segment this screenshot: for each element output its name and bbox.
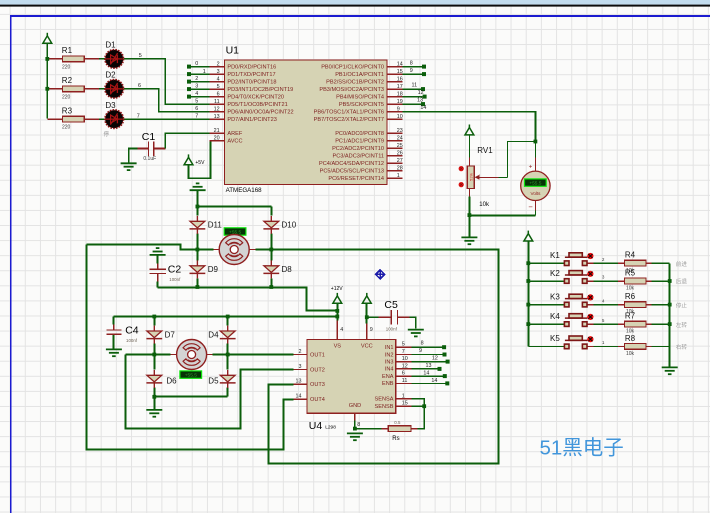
wire OUT4 loop xyxy=(86,244,293,449)
junction VCC-C5 xyxy=(365,315,369,319)
svg-text:14: 14 xyxy=(431,378,437,384)
svg-text:20: 20 xyxy=(214,135,220,141)
svg-text:25: 25 xyxy=(397,143,403,149)
potentiometer RV1 xyxy=(467,166,474,188)
wire OUT2 loop xyxy=(126,355,294,429)
resistor Rs xyxy=(388,426,411,432)
junction RV1 bottom xyxy=(468,213,472,217)
svg-text:2: 2 xyxy=(217,61,220,67)
svg-text:14: 14 xyxy=(397,61,403,67)
svg-text:IN1: IN1 xyxy=(385,345,394,351)
junction bus R1 xyxy=(45,57,49,61)
svg-text:10k: 10k xyxy=(626,351,635,357)
diode D11 xyxy=(190,216,206,234)
wire D8 column xyxy=(270,250,272,288)
wire ground stem below AVCC xyxy=(197,190,199,206)
switch K4 xyxy=(564,314,593,327)
wire K2 row xyxy=(528,280,669,282)
diode D4 xyxy=(220,326,236,344)
svg-text:14: 14 xyxy=(420,105,426,111)
svg-text:PD4/T0/XCK/PCINT20: PD4/T0/XCK/PCINT20 xyxy=(227,94,284,100)
svg-text:8: 8 xyxy=(410,60,413,66)
svg-text:100nf: 100nf xyxy=(169,277,181,282)
svg-text:28: 28 xyxy=(397,166,403,172)
wire PB4 terminal xyxy=(402,96,422,98)
wire left +5V bus vertical xyxy=(46,43,48,119)
switch K2 xyxy=(564,271,593,284)
svg-text:23: 23 xyxy=(397,128,403,134)
svg-text:PB1/OC1A/PCINT1: PB1/OC1A/PCINT1 xyxy=(335,72,384,78)
LED D2 xyxy=(105,80,123,98)
ground right of C5 xyxy=(408,330,424,337)
svg-text:D6: D6 xyxy=(166,376,177,385)
svg-text:D1: D1 xyxy=(105,41,116,50)
svg-text:220: 220 xyxy=(62,125,71,131)
svg-text:OUT1: OUT1 xyxy=(310,352,325,358)
terminal PB5 xyxy=(421,102,425,106)
svg-text:Rs: Rs xyxy=(392,436,399,442)
svg-text:D2: D2 xyxy=(105,71,116,80)
wire C1 to ground xyxy=(137,147,148,149)
junction R bus 4 xyxy=(668,322,672,326)
wire PD4 terminal xyxy=(189,96,210,98)
wire ENB terminal xyxy=(411,382,445,384)
wire PD3 terminal xyxy=(189,88,210,90)
svg-text:3: 3 xyxy=(217,69,220,75)
svg-text:13: 13 xyxy=(417,98,423,104)
terminal PD3 xyxy=(187,87,191,91)
U1 left pin labels xyxy=(227,64,293,144)
U4 pin numbers xyxy=(296,327,408,428)
svg-text:6: 6 xyxy=(138,83,141,89)
wire K5 row xyxy=(528,345,669,347)
capacitor C5 xyxy=(391,310,397,325)
power above K bus xyxy=(524,231,533,241)
svg-text:IN4: IN4 xyxy=(385,367,394,373)
svg-text:R4: R4 xyxy=(625,250,636,259)
resistor R6 xyxy=(624,302,646,308)
svg-text:左转: 左转 xyxy=(676,321,688,329)
wire K bus left xyxy=(527,241,529,346)
junction K bus 4 xyxy=(526,322,530,326)
svg-text:13: 13 xyxy=(296,378,302,384)
U1 left pin stubs xyxy=(210,67,225,141)
svg-text:3: 3 xyxy=(299,364,302,370)
power above RV1 xyxy=(465,124,474,134)
wire D9 column xyxy=(196,250,198,288)
svg-text:R7: R7 xyxy=(625,312,636,321)
junction motor2 right xyxy=(226,353,230,357)
ground below R bus xyxy=(662,367,678,374)
wire K4 row xyxy=(528,323,669,325)
svg-text:11: 11 xyxy=(412,83,418,89)
wire AVCC to +5V xyxy=(189,141,211,179)
wire K1 row xyxy=(528,262,669,264)
svg-text:K5: K5 xyxy=(550,334,560,343)
svg-text:26: 26 xyxy=(397,151,403,157)
terminal PB3 xyxy=(421,87,425,91)
svg-text:前进: 前进 xyxy=(676,260,688,268)
ground below C1 xyxy=(121,163,137,170)
junction bus R2 xyxy=(45,87,49,91)
svg-text:K2: K2 xyxy=(550,269,560,278)
svg-text:PC3/ADC3/PCINT11: PC3/ADC3/PCINT11 xyxy=(333,153,385,159)
svg-text:PB0/ICP1/CLKO/PCINT0: PB0/ICP1/CLKO/PCINT0 xyxy=(321,64,384,70)
svg-text:PC1/ADC1/PCINT9: PC1/ADC1/PCINT9 xyxy=(335,138,384,144)
svg-text:13: 13 xyxy=(214,114,220,120)
svg-text:PD1/TXD/PCINT17: PD1/TXD/PCINT17 xyxy=(227,72,275,78)
junction top rail ground stem xyxy=(196,205,200,209)
resistor R7 xyxy=(624,321,646,327)
svg-text:9: 9 xyxy=(419,348,422,354)
motor M2 xyxy=(177,340,207,370)
svg-text:C5: C5 xyxy=(384,299,398,311)
svg-text:U4: U4 xyxy=(309,420,323,432)
terminal ENB xyxy=(445,381,449,385)
diode D7 xyxy=(146,326,162,344)
svg-text:1: 1 xyxy=(397,173,400,179)
wire D10 column xyxy=(270,207,272,250)
svg-text:9: 9 xyxy=(370,327,373,333)
svg-text:PB3/MOSI/OC2A/PCINT3: PB3/MOSI/OC2A/PCINT3 xyxy=(319,87,384,93)
svg-text:0: 0 xyxy=(195,61,198,67)
wire PB3 terminal xyxy=(402,88,421,90)
svg-text:12: 12 xyxy=(418,90,424,96)
svg-text:K4: K4 xyxy=(550,312,560,321)
junction R bus 2 xyxy=(668,279,672,283)
svg-text:10: 10 xyxy=(397,114,403,120)
wire motor2 top rail xyxy=(114,316,338,318)
wire PB1 terminal xyxy=(402,73,422,75)
wire RV1 top xyxy=(468,135,470,158)
svg-text:PD7/AIN1/PCINT23: PD7/AIN1/PCINT23 xyxy=(227,117,276,123)
wire U4 right stubs xyxy=(396,347,412,406)
terminal IN3 xyxy=(446,360,450,364)
wire IN3 terminal xyxy=(411,361,446,363)
power +5V near AVCC xyxy=(184,154,193,164)
wire D4 column xyxy=(227,317,229,355)
svg-text:100nf: 100nf xyxy=(386,327,398,332)
junction rail D8 xyxy=(269,285,273,289)
svg-text:R1: R1 xyxy=(62,46,73,55)
terminal PD1 xyxy=(187,72,191,76)
wire motor1 leads xyxy=(214,249,256,251)
svg-text:0.5: 0.5 xyxy=(394,420,401,425)
junction D11-D9 node xyxy=(196,248,200,252)
U1 right pin numbers xyxy=(397,61,403,179)
svg-text:PD3/INT1/OC2B/PCINT19: PD3/INT1/OC2B/PCINT19 xyxy=(227,87,293,93)
wire D11 column xyxy=(196,207,198,250)
top black line xyxy=(0,5,710,7)
wire R1-D1-PD5 run xyxy=(47,58,99,60)
capacitor C2 xyxy=(149,269,165,273)
U1 right pin stubs xyxy=(387,67,402,179)
wire motor1 right to OUT3 loop xyxy=(255,250,498,464)
U1 right pin labels xyxy=(314,64,384,182)
svg-text:6: 6 xyxy=(402,371,405,377)
junction GND-Rs xyxy=(353,427,357,431)
svg-text:17: 17 xyxy=(397,84,403,90)
svg-text:12: 12 xyxy=(432,356,438,362)
terminal PD4 xyxy=(187,95,191,99)
resistor R5 xyxy=(624,278,646,284)
svg-text:C4: C4 xyxy=(125,325,139,337)
wire RV1 bottom xyxy=(468,188,470,196)
svg-text:11: 11 xyxy=(402,378,408,384)
svg-text:D3: D3 xyxy=(105,101,116,110)
diode D10 xyxy=(263,216,279,234)
motor M1 xyxy=(219,235,249,265)
svg-text:2: 2 xyxy=(299,349,302,355)
svg-text:10: 10 xyxy=(402,356,408,362)
svg-text:1: 1 xyxy=(402,393,405,399)
ground below U4 GND xyxy=(347,433,363,440)
svg-text:IN3: IN3 xyxy=(385,359,394,365)
svg-text:12: 12 xyxy=(214,106,220,112)
svg-text:+12V: +12V xyxy=(331,286,343,292)
svg-text:PB5/SCK/PCINT5: PB5/SCK/PCINT5 xyxy=(339,102,384,108)
capacitor C1 xyxy=(148,141,153,156)
junction D10-D8 node xyxy=(269,248,273,252)
svg-text:19: 19 xyxy=(397,99,403,105)
svg-text:220: 220 xyxy=(62,94,71,100)
svg-text:1: 1 xyxy=(203,69,206,75)
svg-text:PD2/INT0/PCINT18: PD2/INT0/PCINT18 xyxy=(227,79,276,85)
terminal PB4 xyxy=(423,95,427,99)
wire K right bus xyxy=(669,263,671,366)
svg-text:停: 停 xyxy=(104,130,110,138)
svg-text:C2: C2 xyxy=(168,264,182,276)
wire GND pin to Rs xyxy=(354,413,356,420)
junction +12V rail 2 xyxy=(335,315,339,319)
wire IN2 terminal xyxy=(411,354,442,356)
terminal IN2 xyxy=(443,353,447,357)
svg-text:7: 7 xyxy=(402,349,405,355)
wire R3-D3-PD7 run xyxy=(47,118,99,120)
svg-text:4: 4 xyxy=(217,76,220,82)
diode D5 xyxy=(220,370,236,388)
svg-text:9: 9 xyxy=(410,68,413,74)
wire D6 column xyxy=(153,355,155,410)
svg-text:U1: U1 xyxy=(226,45,240,57)
svg-text:ATMEGA168: ATMEGA168 xyxy=(226,187,263,194)
origin marker xyxy=(375,270,385,280)
wire PD2 terminal xyxy=(189,81,210,83)
motor2 rpm display xyxy=(180,371,202,379)
svg-text:7: 7 xyxy=(195,114,198,120)
wire IN1 terminal xyxy=(411,346,442,348)
svg-text:K1: K1 xyxy=(550,251,560,260)
wire motor2 leads xyxy=(171,354,213,356)
top window strip xyxy=(0,0,710,5)
svg-text:PD0/RXD/PCINT16: PD0/RXD/PCINT16 xyxy=(227,64,276,70)
svg-text:R3: R3 xyxy=(62,106,73,115)
junction +12V rail 1 xyxy=(335,309,339,313)
wire C1 to AREF xyxy=(154,147,166,149)
wire C2 column xyxy=(157,255,159,288)
svg-text:D9: D9 xyxy=(208,265,219,274)
junction rail D9 xyxy=(196,285,200,289)
svg-text:RV1: RV1 xyxy=(477,146,493,155)
svg-text:14: 14 xyxy=(423,371,429,377)
svg-text:L298: L298 xyxy=(325,425,336,431)
svg-text:5: 5 xyxy=(217,84,220,90)
diode D9 xyxy=(190,260,206,278)
svg-text:6: 6 xyxy=(217,91,220,97)
wire IN4 terminal xyxy=(411,368,437,370)
svg-text:5: 5 xyxy=(402,342,405,348)
wire motor1 top rail xyxy=(197,206,271,208)
switch K1 xyxy=(564,253,593,266)
power +5V top-left xyxy=(43,33,52,43)
svg-text:SENSB: SENSB xyxy=(375,404,394,410)
ground below D6 xyxy=(146,410,162,417)
resistor R8 xyxy=(624,344,646,350)
wire ENA terminal xyxy=(411,375,443,377)
svg-text:R8: R8 xyxy=(625,334,636,343)
junction rail D7 xyxy=(152,315,156,319)
power +12V at VS xyxy=(333,293,342,303)
svg-text:K3: K3 xyxy=(550,292,560,301)
svg-text:16: 16 xyxy=(397,76,403,82)
ground inverted below U1 xyxy=(190,183,206,190)
wire R2-D2-PD6 run xyxy=(47,88,99,90)
resistor R1 xyxy=(62,56,84,62)
wire motor2 bottom rail xyxy=(154,396,227,398)
svg-text:11: 11 xyxy=(214,99,220,105)
svg-text:C1: C1 xyxy=(142,131,156,143)
wire voltmeter leads xyxy=(534,142,536,216)
svg-text:5: 5 xyxy=(195,99,198,105)
driver U4 L298 xyxy=(307,340,396,414)
svg-text:PB2/SS/OC1B/PCINT2: PB2/SS/OC1B/PCINT2 xyxy=(326,79,384,85)
svg-text:PC6/RESET/PCINT14: PC6/RESET/PCINT14 xyxy=(328,176,384,182)
terminal PB1 xyxy=(422,72,426,76)
power +12V at VCC xyxy=(362,293,371,303)
svg-text:21: 21 xyxy=(214,128,220,134)
svg-text:10k: 10k xyxy=(626,286,635,292)
svg-text:PC4/ADC4/SDA/PCINT12: PC4/ADC4/SDA/PCINT12 xyxy=(319,161,384,167)
svg-text:停止: 停止 xyxy=(676,301,688,309)
svg-text:0.1uF: 0.1uF xyxy=(143,156,156,162)
junction K bus 2 xyxy=(526,279,530,283)
svg-text:13: 13 xyxy=(426,363,432,369)
svg-text:OUT2: OUT2 xyxy=(310,367,325,373)
svg-text:OUT3: OUT3 xyxy=(310,382,325,388)
wire motor1 left feed xyxy=(86,244,213,249)
wire SENSA-SENSB-Rs xyxy=(411,399,424,429)
svg-text:PB6/TOSC1/XTAL1/PCINT6: PB6/TOSC1/XTAL1/PCINT6 xyxy=(314,109,384,115)
junction R bus 3 xyxy=(668,303,672,307)
svg-text:PD5/T1/OC0B/PCINT21: PD5/T1/OC0B/PCINT21 xyxy=(227,102,287,108)
svg-text:18: 18 xyxy=(397,91,403,97)
svg-text:15: 15 xyxy=(397,69,403,75)
resistor R2 xyxy=(62,86,84,92)
wire motor2 row xyxy=(126,354,294,356)
svg-text:AREF: AREF xyxy=(227,131,243,137)
svg-text:D5: D5 xyxy=(208,376,219,385)
svg-text:220: 220 xyxy=(62,65,71,71)
svg-text:5: 5 xyxy=(139,53,142,59)
svg-text:4: 4 xyxy=(340,327,343,333)
svg-text:ENB: ENB xyxy=(382,381,394,387)
svg-text:PC5/ADC5/SCL/PCINT13: PC5/ADC5/SCL/PCINT13 xyxy=(320,168,384,174)
svg-text:8: 8 xyxy=(357,422,360,428)
svg-text:100nf: 100nf xyxy=(126,338,138,343)
wire motor1 bottom rail to +12V xyxy=(158,287,338,310)
svg-text:PC0/ADC0/PCINT8: PC0/ADC0/PCINT8 xyxy=(335,131,384,137)
wire D7 column xyxy=(153,317,155,355)
ground inverted above C2 xyxy=(150,248,166,255)
LED D1 xyxy=(105,50,123,68)
junction SENS node xyxy=(422,404,426,408)
wire C5 to ground xyxy=(398,316,410,318)
ground below RV1 xyxy=(461,237,477,244)
wire D5 column xyxy=(227,355,229,397)
svg-text:51黑电子: 51黑电子 xyxy=(540,437,624,460)
wire U4 left stubs xyxy=(294,355,308,400)
voltmeter xyxy=(521,171,550,200)
U4 pin labels xyxy=(310,344,394,410)
svg-text:PB7/TOSC2/XTAL2/PCINT7: PB7/TOSC2/XTAL2/PCINT7 xyxy=(314,117,384,123)
svg-text:SENSA: SENSA xyxy=(375,397,394,403)
wire PB6 to voltmeter node xyxy=(402,112,535,142)
svg-text:27: 27 xyxy=(397,158,403,164)
svg-text:4: 4 xyxy=(195,91,198,97)
svg-text:2: 2 xyxy=(195,76,198,82)
svg-text:24: 24 xyxy=(397,136,403,142)
svg-text:D7: D7 xyxy=(165,330,176,339)
junction RV1 wiper node xyxy=(534,140,538,144)
wire PD1 terminal xyxy=(189,73,210,75)
resistor R3 xyxy=(62,116,84,122)
junction rail D4 xyxy=(226,315,230,319)
svg-text:R5: R5 xyxy=(625,268,636,277)
svg-text:3: 3 xyxy=(195,84,198,90)
svg-text:D10: D10 xyxy=(282,220,297,229)
wire PB0 terminal xyxy=(402,66,422,68)
switch K3 xyxy=(564,294,593,307)
svg-text:后退: 后退 xyxy=(676,278,688,286)
terminal PD0 xyxy=(187,65,191,69)
svg-text:+: + xyxy=(529,163,533,170)
wire C4 column xyxy=(113,317,115,349)
terminal IN4 xyxy=(438,367,442,371)
junction motor2 left xyxy=(152,353,156,357)
svg-text:IN2: IN2 xyxy=(385,352,394,358)
svg-text:VCC: VCC xyxy=(361,344,373,350)
wire +12V stem to VS xyxy=(336,303,338,320)
junction K bus 3 xyxy=(526,303,530,307)
svg-text:R6: R6 xyxy=(625,292,636,301)
junction motor2 bottom-left xyxy=(152,395,156,399)
svg-text:−: − xyxy=(528,202,533,211)
terminal PD2 xyxy=(187,80,191,84)
chinese action labels xyxy=(676,260,688,351)
wire K3 row xyxy=(528,304,669,306)
diode D8 xyxy=(263,260,279,278)
junction K bus 1 xyxy=(526,261,530,265)
wire RV1 wiper to node xyxy=(478,176,499,178)
capacitor C4 xyxy=(106,330,121,334)
svg-text:14: 14 xyxy=(296,393,302,399)
wire PB5 terminal xyxy=(402,103,421,105)
svg-text:6: 6 xyxy=(195,106,198,112)
svg-text:9: 9 xyxy=(397,106,400,112)
svg-text:D11: D11 xyxy=(208,220,223,229)
svg-text:PD6/AIN0/OC0A/PCINT22: PD6/AIN0/OC0A/PCINT22 xyxy=(227,109,293,115)
ground below C4 xyxy=(106,349,122,356)
